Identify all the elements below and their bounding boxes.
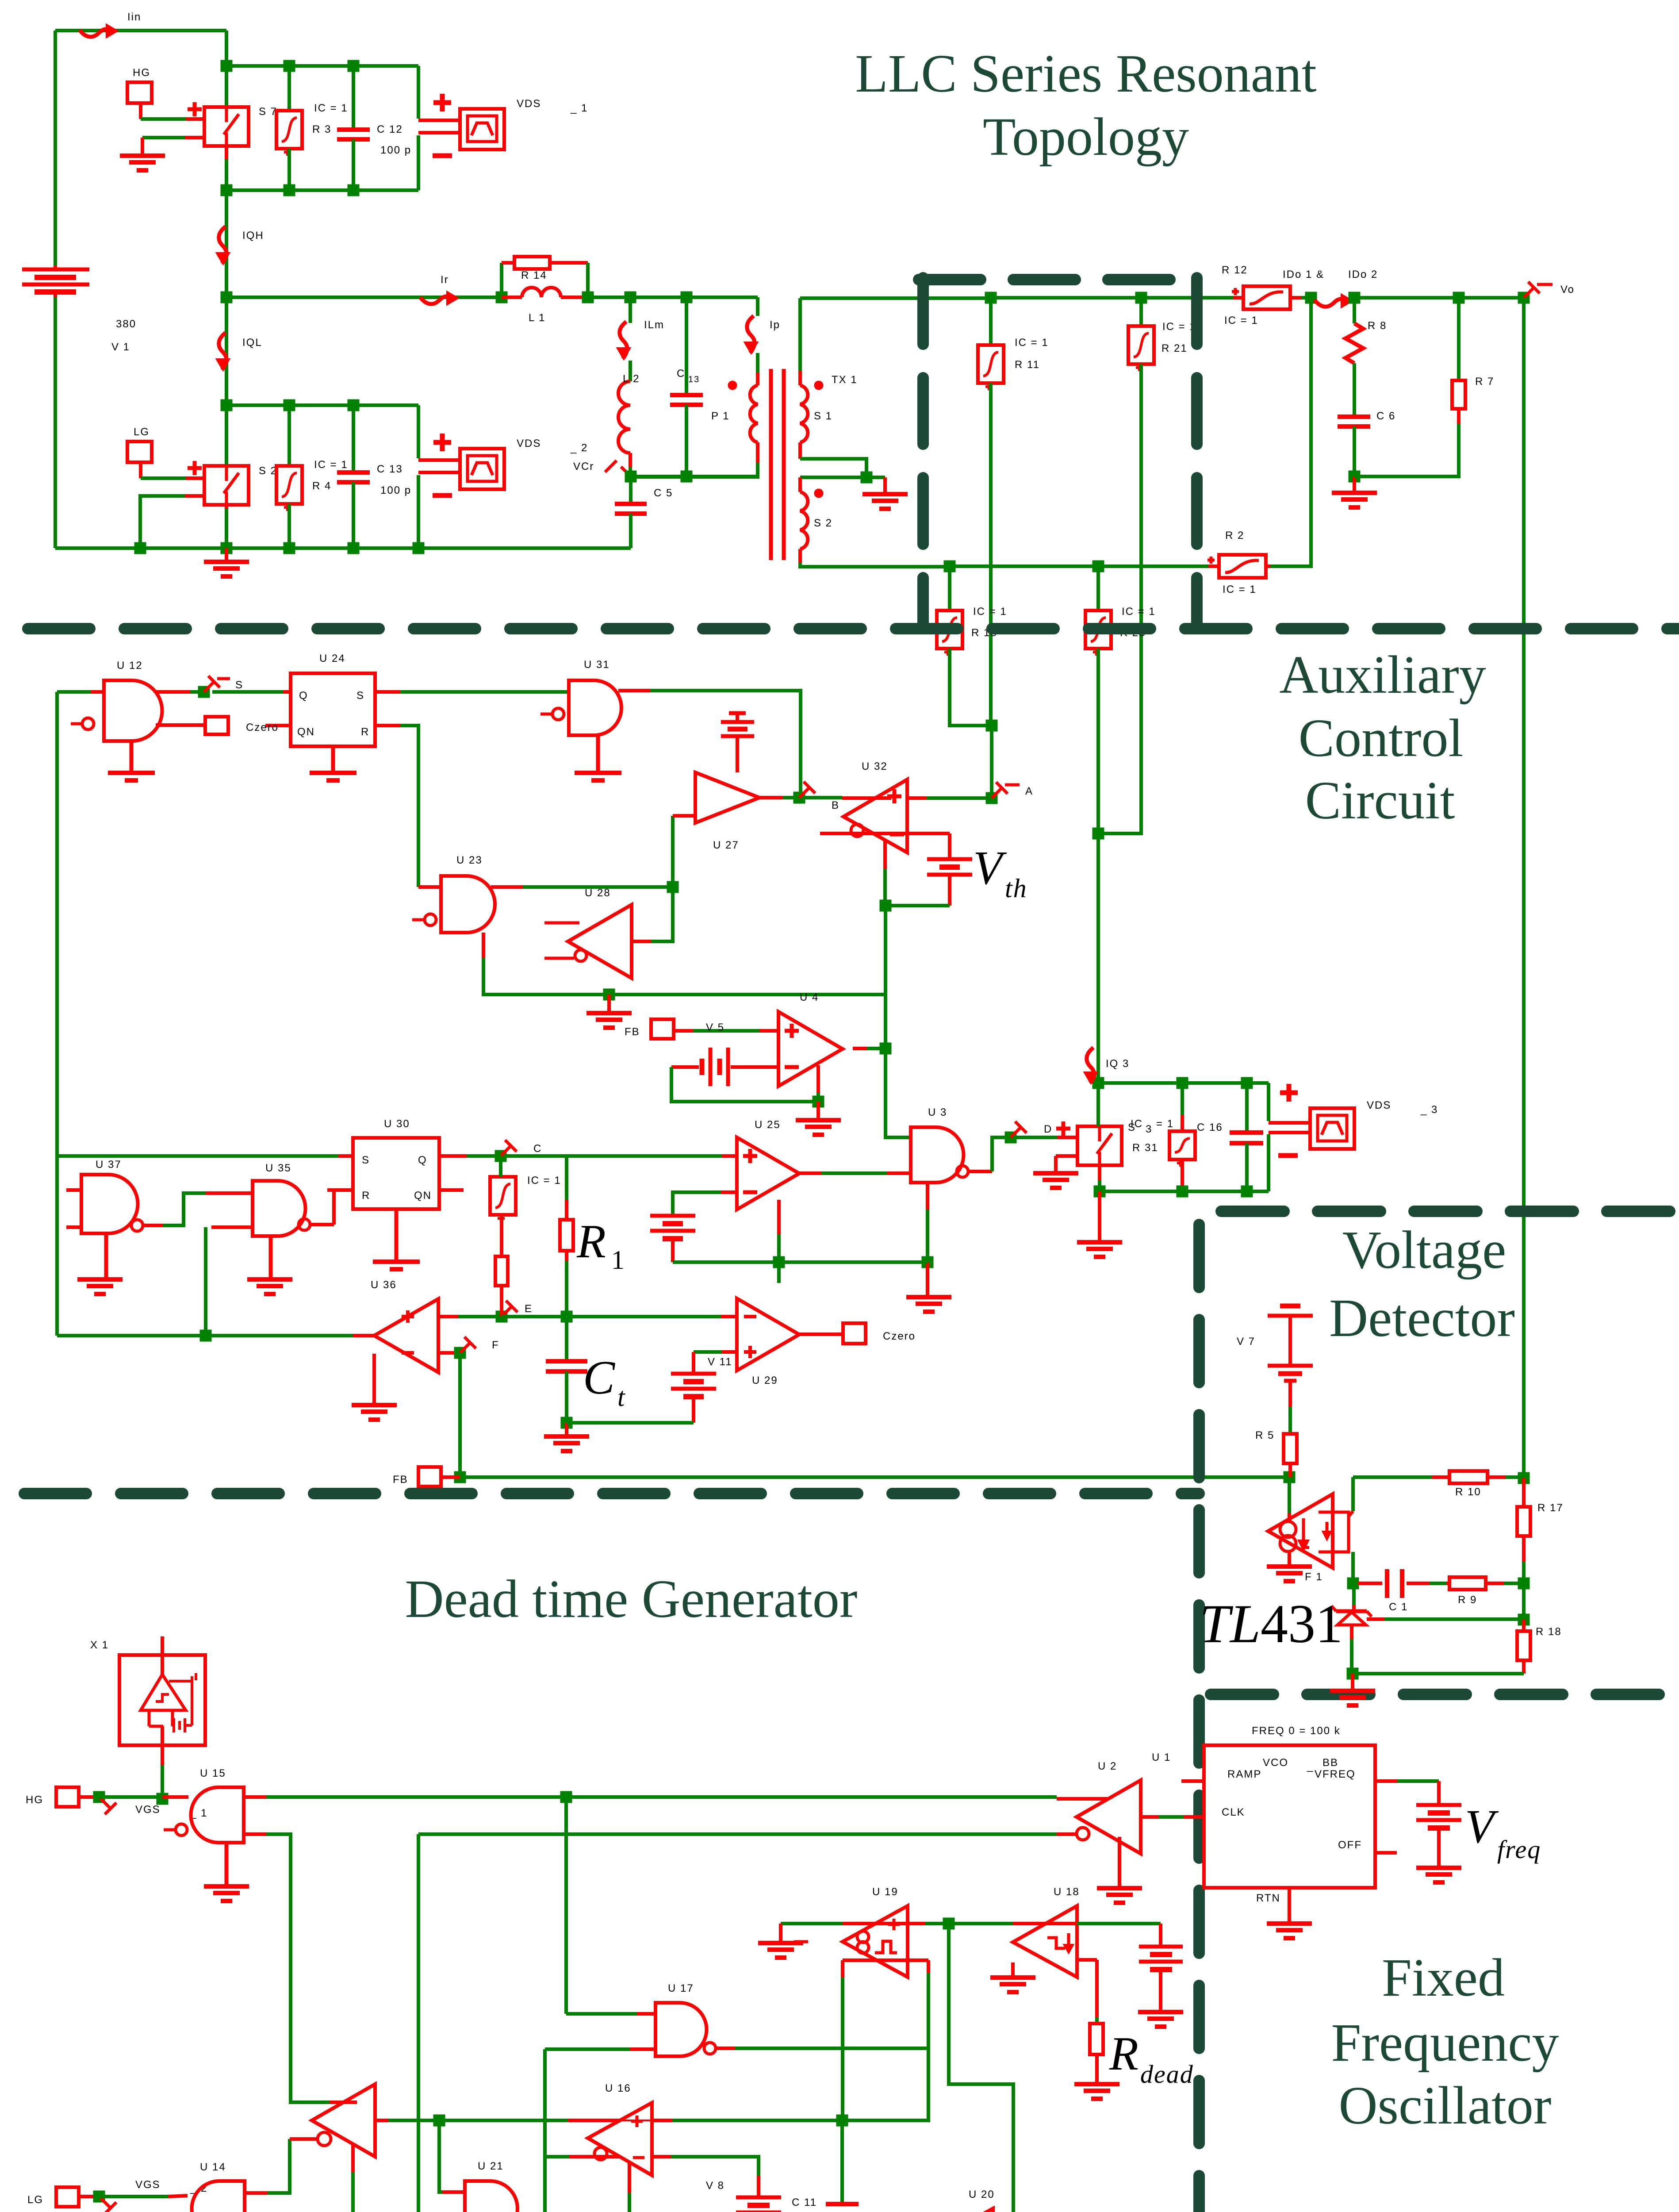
wire S3 left ground — [1056, 1154, 1077, 1158]
wire mid rail — [226, 296, 504, 299]
svg-text:U 25: U 25 — [755, 1119, 781, 1131]
svg-text:C: C — [533, 1143, 542, 1155]
wire V5 amp output — [853, 1047, 867, 1050]
ground U19 row — [779, 1924, 782, 1942]
svg-text:S: S — [235, 679, 243, 691]
ground C6 — [1353, 476, 1356, 492]
dashed section divider 2 — [24, 1488, 1199, 1499]
wire HG to S7 — [141, 117, 186, 121]
junction IDo2 — [1349, 292, 1361, 304]
wire C net — [501, 1154, 567, 1158]
ground Vfreq — [1416, 1866, 1461, 1870]
resistor R14 — [500, 263, 503, 297]
junction S2 rail — [221, 399, 233, 411]
svg-text:V: V — [973, 842, 1007, 895]
battery U18 ref — [1139, 1945, 1183, 1949]
ground U2 — [1118, 1837, 1121, 1887]
wire U35 out to U30 R — [310, 1223, 334, 1226]
wire S1 to center tap — [800, 459, 866, 477]
svg-text:Vo: Vo — [1560, 284, 1575, 296]
svg-text:IQL: IQL — [242, 337, 262, 349]
nonlinear resistor R23 — [1096, 566, 1100, 611]
pin Vo — [1524, 288, 1533, 298]
battery V11 — [671, 1372, 716, 1376]
svg-text:S: S — [356, 690, 364, 702]
ground Ct — [565, 1423, 568, 1436]
wire Vth node down to U3 — [885, 906, 911, 1137]
svg-text:VGS: VGS — [135, 1804, 161, 1816]
svg-text:R 7: R 7 — [1475, 376, 1494, 388]
svg-text:U 15: U 15 — [200, 1767, 226, 1779]
comparator U32 — [843, 780, 907, 853]
ground U37 — [104, 1233, 108, 1278]
wire VFREQ to Vfreq — [1375, 1779, 1397, 1783]
gate U31 — [569, 680, 621, 735]
wire left bus lower — [54, 297, 57, 548]
flip-flop U24 — [291, 673, 375, 746]
nonlinear resistor R3 IC=1 — [287, 66, 291, 111]
current arrow Ip — [747, 316, 755, 353]
wire U31 output — [618, 689, 650, 692]
svg-text:th: th — [1005, 874, 1027, 903]
svg-text:_: _ — [1307, 1760, 1314, 1772]
wire U36 apex ground — [372, 1354, 376, 1403]
svg-text:Ir: Ir — [441, 274, 449, 286]
pin S — [204, 682, 214, 692]
nonlinear resistor R13 — [948, 566, 951, 611]
wire U32 minus to Vth — [820, 832, 950, 835]
wire F down to FB — [458, 1353, 462, 1477]
svg-text:U 20: U 20 — [969, 2189, 995, 2200]
wire IDo1 to R2 — [1270, 298, 1311, 566]
wire U25 plus input — [722, 1154, 737, 1158]
pin D — [1011, 1128, 1020, 1137]
zener TL431 — [1352, 1585, 1356, 1605]
wire U32 output — [883, 839, 887, 869]
svg-text:freq: freq — [1497, 1835, 1541, 1864]
switch S2 — [204, 466, 249, 505]
junction R14-L1 left — [496, 292, 508, 303]
wire S3 column top — [1096, 1083, 1100, 1126]
wire Vth to junction — [885, 904, 950, 907]
battery V8 — [757, 2176, 760, 2197]
svg-text:VFREQ: VFREQ — [1315, 1768, 1356, 1780]
svg-text:R: R — [576, 1215, 607, 1268]
wire S3 bottom rail — [1100, 1190, 1269, 1193]
svg-text:_ 1: _ 1 — [570, 102, 588, 114]
wire U35 lower input — [211, 1225, 253, 1229]
svg-text:_ 2: _ 2 — [570, 442, 588, 454]
battery U25 ref — [650, 1214, 695, 1218]
wire C1 to R9 — [1430, 1582, 1446, 1585]
probe VDS_3 — [1310, 1108, 1354, 1149]
ground U30 — [395, 1209, 399, 1261]
wire U36 minus row F — [438, 1351, 458, 1355]
svg-text:FB: FB — [393, 1474, 408, 1486]
wire junction down — [949, 1924, 1013, 2212]
svg-text:dead: dead — [1140, 2060, 1194, 2089]
wire FB bus to TL431 — [460, 1475, 1289, 1479]
block X1 — [119, 1655, 205, 1745]
wire E to R1 node — [502, 1315, 567, 1318]
wire U29 out to Czero — [799, 1333, 843, 1336]
current arrow Ir — [420, 296, 452, 304]
svg-text:IC = 1: IC = 1 — [1224, 315, 1258, 326]
wire R10 row — [1353, 1475, 1432, 1479]
dashed section divider 1 — [28, 623, 1679, 634]
svg-text:Q: Q — [418, 1154, 427, 1166]
svg-text:3: 3 — [1146, 1123, 1152, 1135]
wire V11 to U29 plus — [722, 1350, 737, 1354]
svg-text:R 10: R 10 — [1455, 1486, 1481, 1498]
battery U27 ref — [736, 737, 739, 772]
resistor R9 — [1449, 1577, 1486, 1590]
svg-text:L 1: L 1 — [529, 312, 545, 324]
svg-text:VCr: VCr — [573, 461, 594, 472]
svg-text:U 37: U 37 — [96, 1159, 122, 1171]
svg-text:U 16: U 16 — [605, 2082, 631, 2094]
battery Vfreq — [1416, 1803, 1461, 1807]
svg-text:Circuit: Circuit — [1305, 771, 1455, 830]
svg-text:LG: LG — [27, 2194, 43, 2206]
svg-text:1: 1 — [611, 1245, 625, 1275]
transformer secondary S2 — [798, 477, 802, 492]
svg-text:100 p: 100 p — [380, 144, 411, 156]
wire E row to U29 — [567, 1315, 721, 1318]
svg-text:V 8: V 8 — [706, 2180, 724, 2192]
current arrow Iin — [80, 29, 111, 37]
wire FB junction down — [1288, 1477, 1291, 1513]
svg-text:R: R — [1109, 2028, 1139, 2080]
wire top input — [55, 29, 226, 32]
svg-text:= 1: = 1 — [1156, 1118, 1174, 1130]
wire 946 column — [417, 1834, 420, 2212]
flip-flop U30 — [353, 1138, 439, 1209]
svg-text:S 2: S 2 — [259, 465, 277, 477]
resistor R17 — [1522, 1478, 1526, 1507]
svg-text:V 7: V 7 — [1237, 1336, 1255, 1348]
capacitor C11 — [840, 2120, 844, 2202]
wire S7 bottom — [225, 146, 228, 159]
svg-text:RAMP: RAMP — [1227, 1768, 1261, 1780]
capacitor C12 100p — [352, 66, 355, 128]
dashed voltage detector box — [1221, 1206, 1679, 1217]
svg-text:Iin: Iin — [127, 11, 141, 23]
wire Vo bus down — [1522, 298, 1526, 1477]
ground RTN — [1288, 1888, 1291, 1923]
capacitor Ct — [565, 1317, 568, 1359]
svg-text:Auxiliary: Auxiliary — [1279, 645, 1486, 705]
wire U19 to junction — [908, 1922, 925, 1925]
svg-text:X 1: X 1 — [90, 1639, 109, 1651]
wire HG to U15 — [99, 1795, 162, 1799]
wire U14 out up to inv — [245, 2191, 268, 2195]
stub RAMP — [1181, 1779, 1204, 1783]
resistor R7 — [1457, 298, 1460, 379]
wire S3 top rail — [1098, 1081, 1269, 1085]
ground U24 — [331, 746, 335, 772]
wire LG to S2 — [141, 476, 186, 480]
wire to IDo junction — [1301, 296, 1311, 300]
svg-text:C 1: C 1 — [1389, 1601, 1408, 1613]
svg-text:FB: FB — [625, 1026, 640, 1038]
svg-text:U 21: U 21 — [478, 2160, 504, 2172]
inverter U28 — [568, 905, 632, 978]
svg-text:U 1: U 1 — [1152, 1751, 1171, 1763]
svg-text:OFF: OFF — [1338, 1839, 1362, 1851]
inverter DT — [312, 2084, 375, 2157]
svg-text:IC = 1: IC = 1 — [1122, 606, 1156, 618]
gate U17 — [655, 2003, 706, 2056]
battery V1 380V — [22, 268, 89, 272]
transformer TX1 core — [756, 353, 759, 373]
pin E — [502, 1307, 511, 1317]
svg-text:FREQ 0 = 100 k: FREQ 0 = 100 k — [1252, 1725, 1341, 1737]
pin C — [501, 1146, 510, 1156]
svg-text:U 23: U 23 — [456, 854, 483, 866]
svg-text:U 36: U 36 — [371, 1279, 397, 1291]
gate U12 — [104, 680, 162, 741]
wire ILm column — [629, 297, 632, 323]
svg-text:U 2: U 2 — [1098, 1760, 1117, 1772]
svg-text:LG: LG — [134, 426, 149, 438]
svg-text:C 13: C 13 — [377, 463, 403, 475]
wire V5 loop — [671, 1067, 818, 1102]
transformer primary P1 — [756, 373, 759, 385]
svg-text:U 31: U 31 — [584, 659, 610, 671]
ground U31 — [596, 735, 600, 772]
svg-text:IDo 2: IDo 2 — [1348, 269, 1378, 280]
svg-text:E: E — [525, 1303, 533, 1315]
wire U25 apex tap — [777, 1200, 781, 1234]
wire U25 out to U3 — [799, 1171, 821, 1175]
wire to VDS3 — [1267, 1083, 1270, 1121]
svg-text:IC: IC — [1131, 1118, 1143, 1130]
resistor R18 — [1522, 1620, 1526, 1631]
svg-text:100 p: 100 p — [380, 484, 411, 496]
nonlinear resistor R4 IC=1 — [287, 405, 291, 466]
svg-text:R: R — [362, 1190, 370, 1202]
wire top rail S7 cluster — [226, 64, 418, 68]
comparator U29 — [737, 1298, 799, 1371]
svg-text:F: F — [492, 1339, 499, 1351]
svg-text:TL431: TL431 — [1200, 1594, 1343, 1654]
wire U15 pin2 — [244, 1832, 266, 1836]
wire U32 plus to A — [907, 796, 927, 800]
resistor R10 — [1449, 1471, 1487, 1483]
pad FB1 — [651, 1019, 674, 1039]
svg-text:D: D — [1044, 1123, 1052, 1135]
wire to probe VDS_1 — [417, 66, 420, 119]
svg-text:A: A — [1025, 785, 1033, 797]
svg-text:C 11: C 11 — [792, 2197, 817, 2208]
probe VDS_1 — [460, 109, 504, 150]
dashed box output rectifier — [917, 278, 929, 629]
ground U15 — [225, 1843, 229, 1886]
svg-text:S 1: S 1 — [814, 410, 832, 422]
resistor R5 — [1284, 1434, 1297, 1463]
nonlinear resistor R11 — [989, 298, 993, 345]
wire U12 left bus — [55, 692, 59, 1336]
wire U30 S input — [57, 1154, 338, 1158]
gate U15 mirrored — [191, 1787, 244, 1843]
svg-text:U 14: U 14 — [200, 2161, 226, 2173]
junction mid rail — [221, 292, 233, 303]
svg-text:U 28: U 28 — [585, 887, 611, 899]
svg-text:R 5: R 5 — [1255, 1429, 1274, 1441]
inductor L2 — [629, 361, 632, 381]
ground F1 — [1288, 1553, 1291, 1566]
wire top rail S2 cluster — [226, 403, 418, 407]
wire inv slant tap — [351, 2144, 355, 2172]
svg-text:_ 3: _ 3 — [1420, 1104, 1438, 1116]
svg-text:Voltage: Voltage — [1342, 1220, 1506, 1280]
svg-text:R 3: R 3 — [312, 123, 331, 135]
wire S2 lower-left — [185, 494, 204, 498]
svg-text:Control: Control — [1299, 708, 1464, 768]
svg-text:VDS: VDS — [517, 438, 541, 449]
svg-text:C: C — [677, 368, 685, 380]
svg-text:Detector: Detector — [1329, 1288, 1515, 1348]
svg-text:R 2: R 2 — [1225, 530, 1244, 541]
svg-text:Topology: Topology — [983, 107, 1189, 167]
resistor R8 zigzag — [1353, 298, 1356, 323]
wire VCr rail — [630, 475, 759, 478]
wire U17 lower input — [630, 2047, 655, 2051]
wire inv out — [375, 2119, 388, 2122]
svg-text:V 11: V 11 — [708, 1356, 732, 1368]
svg-text:IQ 3: IQ 3 — [1106, 1058, 1129, 1070]
svg-text:IC = 1: IC = 1 — [1223, 584, 1257, 595]
svg-text:IDo 1 &: IDo 1 & — [1283, 269, 1324, 280]
svg-text:F 1: F 1 — [1305, 1571, 1323, 1583]
wire rail to transformer — [588, 296, 758, 299]
svg-text:R 21: R 21 — [1161, 342, 1188, 354]
svg-text:IC = 1: IC = 1 — [314, 459, 348, 471]
svg-text:Czero: Czero — [883, 1330, 916, 1342]
gate U14 mirrored — [192, 2181, 245, 2212]
ground U18 battery — [1138, 2010, 1183, 2014]
wire U37 inputs — [66, 1188, 81, 1192]
svg-text:C 12: C 12 — [377, 123, 403, 135]
wire U17 output — [716, 2047, 735, 2050]
wire to R18 node — [1522, 1583, 1526, 1620]
stub OFF — [1375, 1851, 1397, 1855]
svg-text:V 1: V 1 — [111, 341, 130, 353]
svg-text:R 18: R 18 — [1536, 1626, 1562, 1638]
capacitor C13 — [685, 297, 688, 394]
svg-text:HG: HG — [26, 1794, 43, 1806]
wire S7 lower-left to ground — [185, 136, 204, 139]
oscillator U1 — [1204, 1745, 1375, 1888]
buffer U27 — [695, 772, 759, 823]
svg-text:R 9: R 9 — [1458, 1594, 1477, 1606]
wire U16 minus row — [569, 2155, 620, 2158]
wire U18 right to battery — [1077, 1922, 1161, 1925]
wire R10 left branch — [1351, 1477, 1355, 1511]
wire S to U24 — [212, 690, 283, 694]
pin VGS_1 — [100, 1798, 110, 1808]
pad U12 out — [156, 723, 205, 727]
svg-text:HG: HG — [133, 67, 150, 79]
wire 1232 bus — [543, 2049, 547, 2212]
inductor L1 — [502, 296, 522, 299]
ground center tap — [862, 492, 908, 496]
svg-text:Dead time Generator: Dead time Generator — [405, 1569, 858, 1629]
svg-text:QN: QN — [297, 726, 315, 738]
wire U3 output — [969, 1170, 992, 1173]
wire node to U27 input — [671, 816, 675, 887]
capacitor C1 — [1358, 1582, 1382, 1585]
wire primary top — [756, 297, 759, 316]
svg-text:U 32: U 32 — [862, 760, 888, 772]
svg-text:VCO: VCO — [1263, 1757, 1288, 1769]
svg-text:R 12: R 12 — [1222, 264, 1248, 276]
svg-text:13: 13 — [688, 375, 700, 384]
wire to probe VDS_2 — [417, 405, 420, 458]
inverter U2 — [1077, 1780, 1141, 1854]
pad LG — [127, 442, 152, 462]
wire U19 bottom taps — [843, 1959, 928, 1962]
wire IQ3 column — [1096, 833, 1100, 1083]
battery V7 — [1280, 1304, 1300, 1309]
wire B to U32 — [805, 796, 842, 799]
ground S3 — [1098, 1191, 1101, 1241]
wire bottom rail — [55, 546, 631, 550]
wire U23 bottom tap — [482, 933, 485, 958]
svg-text:CLK: CLK — [1222, 1806, 1245, 1818]
svg-text:V 5: V 5 — [706, 1022, 724, 1033]
ground U12 — [130, 741, 134, 772]
svg-text:380: 380 — [116, 318, 136, 330]
capacitor C16 — [1245, 1083, 1249, 1131]
current arrow IQ3 — [1087, 1048, 1094, 1083]
wire dead bus 4146 — [418, 1832, 1057, 1836]
svg-text:QN: QN — [414, 1190, 432, 1202]
svg-text:C: C — [583, 1352, 616, 1404]
wire V7 to R5 — [1288, 1381, 1292, 1407]
svg-text:Q: Q — [299, 690, 308, 702]
svg-text:R 11: R 11 — [1015, 359, 1040, 371]
svg-text:R: R — [361, 726, 369, 738]
wire FB to amp — [674, 1029, 693, 1033]
resistor R12 IC=1 — [1243, 286, 1290, 309]
switch S3 — [1077, 1126, 1122, 1165]
transformer secondary S1 — [798, 298, 802, 371]
wire D to S3 — [1013, 1136, 1057, 1139]
svg-text:IC = 1: IC = 1 — [973, 606, 1007, 618]
ground U18 apex — [1011, 1962, 1015, 1977]
switch S7 — [204, 107, 249, 146]
pin F — [460, 1343, 470, 1353]
battery Vth — [927, 857, 972, 861]
ground Rdead — [1074, 2082, 1119, 2086]
wire U24 R out — [375, 724, 400, 727]
svg-text:IC = 1: IC = 1 — [527, 1175, 561, 1187]
wire U18 to Rdead — [1077, 1958, 1097, 1962]
one-shot U19 — [843, 1906, 908, 1977]
svg-text:S 7: S 7 — [259, 106, 277, 118]
nonlinear resistor R21 — [1139, 298, 1143, 326]
svg-text:R 17: R 17 — [1537, 1502, 1564, 1514]
wire U27 output — [759, 796, 783, 799]
gate U23 — [441, 876, 495, 933]
svg-text:L 2: L 2 — [623, 373, 640, 385]
wire U16 plus row — [568, 2119, 621, 2122]
svg-text:Ip: Ip — [770, 319, 780, 331]
svg-text:U 4: U 4 — [800, 991, 819, 1003]
svg-text:B: B — [832, 799, 839, 811]
